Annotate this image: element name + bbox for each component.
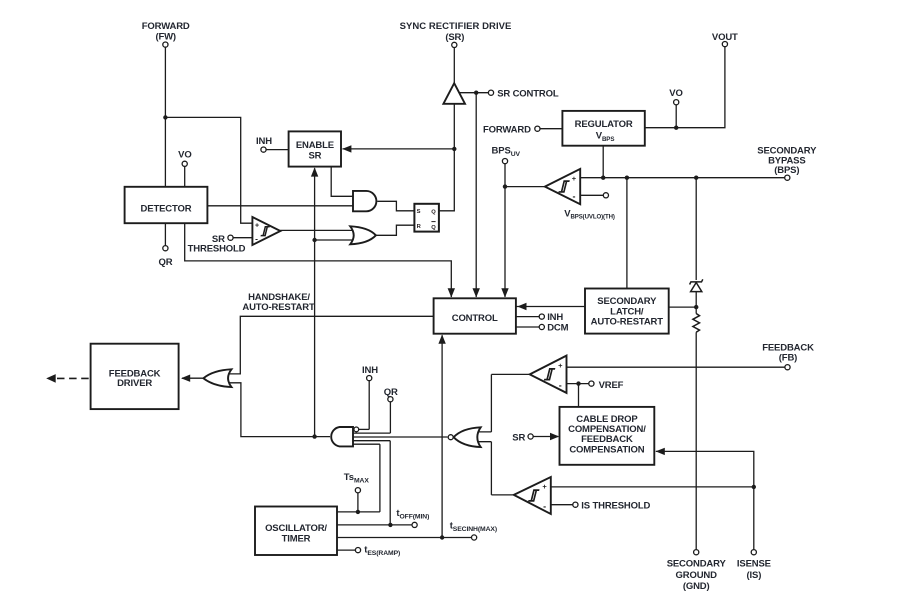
svg-text:VO: VO xyxy=(669,88,682,99)
svg-text:CONTROL: CONTROL xyxy=(452,313,498,324)
svg-text:IS THRESHOLD: IS THRESHOLD xyxy=(581,500,650,511)
svg-text:AUTO-RESTART: AUTO-RESTART xyxy=(242,302,315,313)
svg-text:QR: QR xyxy=(384,387,398,398)
svg-text:+: + xyxy=(558,361,563,370)
svg-text:SECONDARY: SECONDARY xyxy=(667,559,727,570)
svg-text:+: + xyxy=(542,482,547,491)
svg-text:THRESHOLD: THRESHOLD xyxy=(188,244,246,255)
svg-text:SECONDARY: SECONDARY xyxy=(757,145,817,156)
svg-text:DRIVER: DRIVER xyxy=(117,378,152,389)
svg-text:INH: INH xyxy=(256,136,272,147)
svg-text:COMPENSATION: COMPENSATION xyxy=(569,444,644,455)
svg-text:OSCILLATOR/: OSCILLATOR/ xyxy=(265,523,327,534)
svg-text:-: - xyxy=(543,502,546,512)
svg-text:SR: SR xyxy=(512,433,525,444)
svg-text:+: + xyxy=(572,174,577,183)
svg-text:(BPS): (BPS) xyxy=(774,165,799,176)
svg-text:VOUT: VOUT xyxy=(712,32,738,43)
svg-text:SR: SR xyxy=(308,151,321,162)
svg-text:-: - xyxy=(255,234,258,244)
svg-text:DCM: DCM xyxy=(547,323,568,334)
svg-text:-: - xyxy=(559,380,562,390)
svg-text:(SR): (SR) xyxy=(445,32,464,43)
svg-text:VREF: VREF xyxy=(599,380,624,391)
svg-text:FORWARD: FORWARD xyxy=(142,21,190,32)
svg-text:SYNC RECTIFIER DRIVE: SYNC RECTIFIER DRIVE xyxy=(400,21,512,32)
svg-text:FORWARD: FORWARD xyxy=(483,125,531,136)
svg-text:-: - xyxy=(573,192,576,202)
svg-text:QR: QR xyxy=(159,257,173,268)
svg-text:S: S xyxy=(417,209,421,215)
svg-text:Q: Q xyxy=(431,225,436,231)
svg-text:+: + xyxy=(255,222,259,229)
svg-text:(GND): (GND) xyxy=(683,581,710,592)
svg-text:(IS): (IS) xyxy=(747,570,762,581)
svg-text:INH: INH xyxy=(547,312,563,323)
svg-text:(FW): (FW) xyxy=(155,32,176,43)
svg-text:ISENSE: ISENSE xyxy=(737,559,771,570)
svg-text:DETECTOR: DETECTOR xyxy=(141,204,192,215)
svg-text:VO: VO xyxy=(178,149,191,160)
svg-text:AUTO-RESTART: AUTO-RESTART xyxy=(591,317,664,328)
svg-text:GROUND: GROUND xyxy=(676,570,718,581)
svg-text:Q: Q xyxy=(431,210,436,216)
svg-text:ENABLE: ENABLE xyxy=(296,140,334,151)
svg-text:SR CONTROL: SR CONTROL xyxy=(497,89,559,100)
svg-text:TIMER: TIMER xyxy=(282,534,311,545)
svg-text:(FB): (FB) xyxy=(779,352,797,363)
svg-text:INH: INH xyxy=(362,365,378,376)
svg-text:REGULATOR: REGULATOR xyxy=(575,119,633,130)
